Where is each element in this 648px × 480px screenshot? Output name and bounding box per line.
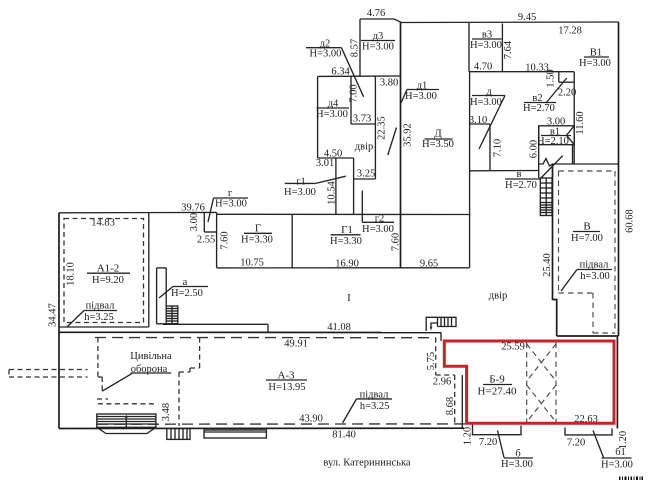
svg-text:д4: д4	[328, 99, 339, 110]
svg-text:Н=3.00: Н=3.00	[362, 42, 394, 53]
svg-text:49.91: 49.91	[284, 339, 308, 350]
svg-text:Н=3.50: Н=3.50	[422, 139, 454, 150]
svg-text:Н=3.30: Н=3.30	[330, 236, 362, 247]
svg-text:3.00: 3.00	[189, 213, 200, 231]
svg-text:Н=2.50: Н=2.50	[171, 288, 203, 299]
svg-text:43.90: 43.90	[299, 414, 323, 425]
svg-text:22.63: 22.63	[574, 414, 598, 425]
svg-text:7.60: 7.60	[390, 233, 401, 251]
svg-text:25.40: 25.40	[542, 253, 553, 277]
svg-text:5.75: 5.75	[426, 352, 437, 370]
svg-text:6.00: 6.00	[529, 140, 540, 158]
svg-text:6.34: 6.34	[331, 67, 350, 78]
svg-text:В: В	[583, 221, 590, 233]
svg-text:h=3.00: h=3.00	[580, 271, 610, 282]
svg-text:д3: д3	[373, 31, 384, 42]
svg-text:Цивільна: Цивільна	[130, 351, 172, 362]
svg-text:А-3: А-3	[277, 370, 295, 382]
svg-text:7.64: 7.64	[503, 40, 514, 59]
svg-text:7.20: 7.20	[567, 438, 585, 449]
svg-text:2.96: 2.96	[433, 377, 451, 388]
svg-text:Н=2.70: Н=2.70	[505, 180, 537, 191]
svg-text:д1: д1	[417, 81, 428, 92]
svg-text:4.70: 4.70	[474, 62, 492, 73]
svg-text:вул. Катерининська: вул. Катерининська	[323, 458, 410, 469]
svg-text:І: І	[347, 292, 351, 304]
svg-text:г: г	[228, 188, 233, 199]
svg-text:16.90: 16.90	[335, 259, 359, 270]
svg-text:Н=3.00: Н=3.00	[470, 40, 502, 51]
svg-text:підвал: підвал	[86, 301, 115, 312]
svg-text:25.59: 25.59	[501, 342, 525, 353]
svg-text:7.20: 7.20	[479, 437, 497, 448]
svg-text:Н=3.00: Н=3.00	[579, 58, 611, 69]
svg-text:Н=3.00: Н=3.00	[310, 49, 342, 60]
svg-text:2.55: 2.55	[197, 235, 215, 246]
svg-text:двір: двір	[489, 291, 507, 302]
svg-text:Н=13.95: Н=13.95	[268, 382, 305, 393]
svg-text:Н=3.00: Н=3.00	[601, 459, 633, 470]
svg-text:А1-2: А1-2	[97, 263, 120, 275]
svg-text:в: в	[517, 169, 522, 180]
svg-text:Б-9: Б-9	[489, 374, 505, 386]
svg-text:г1: г1	[296, 177, 306, 188]
svg-text:підвал: підвал	[580, 260, 609, 271]
svg-text:h=3.25: h=3.25	[84, 312, 114, 323]
svg-text:81.40: 81.40	[332, 430, 356, 441]
svg-text:б: б	[515, 449, 520, 460]
svg-text:7.00: 7.00	[349, 84, 360, 102]
svg-text:Н=3.00: Н=3.00	[284, 187, 316, 198]
svg-text:Н=2.70: Н=2.70	[523, 103, 555, 114]
svg-text:10.54: 10.54	[327, 180, 338, 204]
svg-text:34.47: 34.47	[48, 303, 59, 327]
svg-text:8.68: 8.68	[445, 397, 456, 415]
svg-text:Г: Г	[255, 223, 261, 235]
svg-text:Н=9.20: Н=9.20	[92, 275, 124, 286]
svg-text:8.57: 8.57	[350, 39, 361, 57]
svg-text:Н=3.00: Н=3.00	[362, 224, 394, 235]
svg-text:3.10: 3.10	[469, 115, 487, 126]
svg-text:h=3.25: h=3.25	[360, 401, 390, 412]
svg-text:В1: В1	[590, 48, 602, 59]
svg-text:10.75: 10.75	[240, 258, 264, 269]
svg-text:двір: двір	[355, 142, 373, 153]
svg-text:9.65: 9.65	[420, 259, 438, 270]
svg-text:9.45: 9.45	[518, 12, 536, 23]
svg-text:Н=7.00: Н=7.00	[571, 233, 603, 244]
svg-text:22.35: 22.35	[376, 116, 387, 140]
svg-text:3.48: 3.48	[161, 403, 172, 421]
svg-text:Н=2.10: Н=2.10	[537, 136, 569, 147]
svg-text:3.25: 3.25	[357, 169, 375, 180]
svg-text:Н=3.00: Н=3.00	[470, 97, 502, 108]
svg-text:3.01: 3.01	[316, 158, 334, 169]
svg-text:1.20: 1.20	[463, 427, 474, 445]
svg-text:17.28: 17.28	[558, 26, 582, 37]
svg-text:18.10: 18.10	[66, 262, 77, 286]
svg-text:оборона: оборона	[131, 364, 168, 375]
svg-text:Н=3.00: Н=3.00	[405, 91, 437, 102]
svg-text:39.76: 39.76	[181, 203, 205, 214]
svg-text:підвал: підвал	[360, 390, 389, 401]
svg-text:3.73: 3.73	[353, 114, 371, 125]
svg-text:60.68: 60.68	[625, 209, 636, 233]
svg-text:7.60: 7.60	[220, 231, 231, 249]
svg-text:Н=3.00: Н=3.00	[316, 109, 348, 120]
svg-text:Н=3.00: Н=3.00	[501, 459, 533, 470]
svg-text:4.76: 4.76	[367, 8, 385, 19]
svg-text:г2: г2	[375, 213, 385, 224]
svg-text:41.08: 41.08	[327, 322, 351, 333]
svg-text:Г1: Г1	[341, 224, 353, 236]
svg-text:2.20: 2.20	[558, 88, 576, 99]
svg-text:б1: б1	[615, 447, 626, 458]
svg-text:Н=27.40: Н=27.40	[478, 386, 517, 398]
svg-text:в3: в3	[482, 30, 492, 41]
svg-text:14.83: 14.83	[91, 218, 115, 229]
svg-text:1.50: 1.50	[546, 69, 557, 87]
svg-text:3.80: 3.80	[380, 78, 398, 89]
svg-text:а: а	[183, 277, 188, 288]
svg-text:7.10: 7.10	[493, 139, 504, 157]
svg-text:Н=3.30: Н=3.30	[241, 235, 273, 246]
svg-text:Д: Д	[434, 128, 442, 140]
svg-text:д: д	[486, 87, 492, 98]
svg-text:Н=3.00: Н=3.00	[215, 199, 247, 210]
svg-text:35.92: 35.92	[403, 123, 414, 147]
svg-text:11.60: 11.60	[575, 111, 586, 134]
